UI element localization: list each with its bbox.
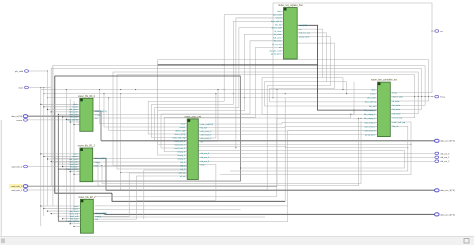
svg-text:full_state: full_state	[392, 112, 401, 115]
svg-text:laf_state: laf_state	[274, 33, 282, 36]
svg-text:soft_reset_1: soft_reset_1	[200, 133, 212, 136]
svg-text:read_enb_0: read_enb_0	[174, 141, 186, 143]
svg-text:empty: empty	[95, 215, 100, 218]
svg-text:flush: flush	[200, 164, 204, 166]
svg-text:empty_0: empty_0	[177, 150, 186, 153]
svg-text:ld_state: ld_state	[274, 30, 282, 33]
svg-text:full_out_reg: full_out_reg	[299, 32, 309, 35]
svg-text:parity_done: parity_done	[271, 53, 282, 56]
svg-text:pkt_valid: pkt_valid	[15, 70, 23, 73]
svg-text:busy: busy	[392, 92, 396, 94]
svg-text:empty_2: empty_2	[177, 157, 186, 160]
svg-text:clock: clock	[371, 89, 376, 91]
svg-text:data_out_2[7:0]: data_out_2[7:0]	[440, 213, 455, 216]
svg-text:low_pkt_valid: low_pkt_valid	[269, 49, 281, 52]
svg-text:vld_out_1: vld_out_1	[200, 156, 210, 159]
svg-text:fifo_full: fifo_full	[275, 24, 282, 26]
svg-text:router_fifo_R0_2: router_fifo_R0_2	[78, 95, 96, 98]
svg-text:data_in[7:0]: data_in[7:0]	[67, 118, 78, 121]
svg-text:busy: busy	[440, 96, 445, 98]
svg-text:resetn: resetn	[370, 93, 376, 96]
svg-text:fifo_empty_2: fifo_empty_2	[364, 117, 376, 120]
svg-text:err: err	[279, 47, 282, 49]
svg-text:write_enb[2:0]: write_enb[2:0]	[200, 123, 213, 126]
svg-text:dout[7:0]: dout[7:0]	[299, 24, 307, 27]
svg-text:resetn: resetn	[16, 119, 22, 122]
svg-text:soft_reset_0: soft_reset_0	[364, 121, 376, 124]
svg-text:err: err	[440, 30, 443, 33]
svg-text:pkt_valid: pkt_valid	[367, 97, 375, 100]
svg-text:data_in[7:0]: data_in[7:0]	[67, 168, 78, 171]
svg-text:fifo_rd: fifo_rd	[392, 126, 398, 128]
svg-text:vld_out_0: vld_out_0	[440, 152, 450, 155]
svg-text:write_enb_reg: write_enb_reg	[172, 136, 185, 139]
svg-text:soft_reset_1: soft_reset_1	[364, 125, 376, 128]
svg-text:rd_en: rd_en	[180, 176, 185, 178]
svg-text:ld_state: ld_state	[392, 100, 400, 103]
svg-text:vld_out_0: vld_out_0	[200, 152, 210, 155]
svg-text:data_in[1:0]: data_in[1:0]	[175, 133, 186, 136]
svg-text:read_enb_2: read_enb_2	[11, 189, 23, 192]
svg-text:data_out[7:0]: data_out[7:0]	[95, 110, 107, 113]
svg-text:parity_done: parity_done	[299, 36, 310, 39]
svg-text:rst_int_reg: rst_int_reg	[272, 43, 281, 46]
svg-text:laf_state: laf_state	[392, 104, 400, 107]
svg-text:soft_reset_0: soft_reset_0	[200, 130, 212, 133]
svg-text:router_fifo_R2_2: router_fifo_R2_2	[78, 196, 96, 199]
svg-text:data_in[7:0]: data_in[7:0]	[11, 115, 22, 118]
svg-text:clock: clock	[181, 123, 186, 125]
svg-text:empty_1: empty_1	[177, 154, 186, 157]
svg-text:fifo_empty_1: fifo_empty_1	[364, 113, 376, 116]
svg-text:data_out[7:0]: data_out[7:0]	[95, 157, 107, 160]
svg-text:vld_out_2: vld_out_2	[440, 160, 450, 163]
svg-text:fifo_full: fifo_full	[200, 127, 207, 129]
svg-text:resetn: resetn	[276, 17, 282, 20]
svg-text:empty: empty	[95, 113, 100, 116]
svg-text:data_in[1:0]: data_in[1:0]	[365, 101, 376, 104]
svg-text:soft_reset: soft_reset	[70, 210, 79, 213]
svg-text:read_enb_1: read_enb_1	[11, 185, 23, 188]
svg-text:soft_reset_2: soft_reset_2	[364, 129, 376, 132]
svg-text:soft_rst: soft_rst	[179, 171, 186, 174]
svg-text:data_out[7:0]: data_out[7:0]	[95, 212, 107, 215]
svg-text:clock: clock	[18, 87, 24, 89]
svg-text:data_out_1[7:0]: data_out_1[7:0]	[440, 189, 455, 192]
svg-text:router_sync_inst: router_sync_inst	[184, 116, 201, 119]
svg-text:rst_int_reg: rst_int_reg	[392, 117, 401, 120]
svg-text:fifo_empty_0: fifo_empty_0	[364, 109, 376, 112]
svg-text:soft_reset_2: soft_reset_2	[200, 137, 212, 140]
svg-text:resetn: resetn	[180, 126, 186, 129]
svg-text:detect_add: detect_add	[271, 27, 281, 30]
svg-text:router_fsm_controller_ext: router_fsm_controller_ext	[371, 79, 397, 82]
svg-text:write_enb_reg: write_enb_reg	[392, 121, 405, 124]
svg-text:full_state: full_state	[273, 36, 282, 39]
svg-text:pkt_valid: pkt_valid	[273, 13, 281, 16]
svg-text:read_enb_2: read_enb_2	[174, 148, 186, 150]
svg-text:data_in[7:0]: data_in[7:0]	[68, 220, 79, 223]
svg-text:router_reg_register_bist: router_reg_register_bist	[278, 4, 303, 7]
svg-text:read_enb_0: read_enb_0	[11, 165, 23, 168]
svg-text:fifo_full: fifo_full	[369, 106, 376, 108]
svg-text:vld_out_2: vld_out_2	[200, 160, 210, 163]
svg-text:detect_add: detect_add	[175, 129, 185, 132]
svg-text:data_in[7:0]: data_in[7:0]	[271, 20, 282, 23]
svg-text:clock: clock	[277, 11, 282, 13]
svg-text:lfd_state: lfd_state	[274, 40, 282, 43]
svg-text:parity_done: parity_done	[365, 134, 376, 137]
svg-text:detect_add: detect_add	[392, 96, 402, 99]
svg-text:router_fifo_R1_2: router_fifo_R1_2	[78, 145, 96, 148]
svg-text:err: err	[299, 29, 302, 31]
svg-text:data_out_0[7:0]: data_out_0[7:0]	[440, 140, 455, 143]
svg-text:vld_out_1: vld_out_1	[440, 156, 450, 159]
svg-text:read_enb_1: read_enb_1	[174, 144, 186, 146]
svg-text:lfd_state: lfd_state	[392, 108, 400, 111]
svg-text:empty: empty	[95, 161, 100, 164]
